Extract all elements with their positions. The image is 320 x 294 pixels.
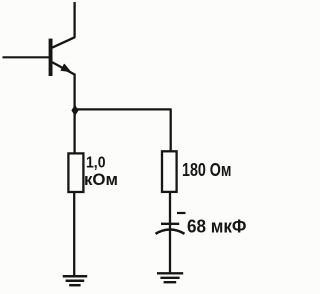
resistor R2 [162,151,177,192]
wire right branch vertical [170,109,172,152]
capacitor C1 top plate [161,223,179,225]
wire node to R1 [73,110,75,154]
wire node to right branch [75,108,172,110]
svg-text:кОм: кОм [84,171,118,189]
capacitor C1 curved plate [156,230,185,234]
wire collector vertical [73,2,75,38]
ground right [157,273,183,282]
svg-text:1,0: 1,0 [86,154,106,171]
svg-text:68 мкФ: 68 мкФ [187,216,247,237]
wire emitter [73,74,75,111]
wire base [3,56,50,58]
wire R1 to ground [73,192,75,275]
wire R2 to C1 [169,192,171,224]
wire C1 to ground [169,225,171,273]
transistor VT1 [49,37,75,76]
svg-text:180 Ом: 180 Ом [182,159,232,180]
polarity plus mark [177,212,186,214]
ground left [63,276,87,285]
node A junction dot [71,105,78,116]
resistor R1 [68,153,83,192]
